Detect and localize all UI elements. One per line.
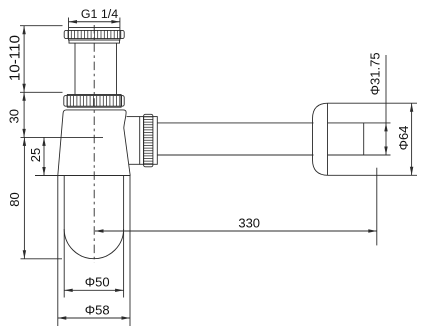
extension line at nut top (10-110) [20,25,63,27]
svg-text:80: 80 [7,192,22,206]
cup inner right wall / ext line [123,176,125,298]
pipe end joint line [363,123,365,155]
cup inner bottom arc [64,229,123,259]
arrowhead right G1 1/4 [111,20,120,23]
arrowhead up 80 [23,137,26,146]
arrowhead up 10-110 [22,26,25,35]
arrowhead left G1 1/4 [69,20,78,23]
arrowhead down 10-110 [22,84,25,93]
arrowhead left Phi50 [64,289,73,292]
outlet nut knurl ticks [144,117,153,164]
inlet pipe right wall [116,43,118,94]
extension line right of 330 dim [376,168,378,246]
svg-text:10-110: 10-110 [6,35,23,81]
outlet nut knurl band with tabs [144,114,153,167]
arrowhead down 25 [42,167,45,176]
arrowhead down 80 [23,250,26,259]
svg-text:Φ64: Φ64 [396,126,411,151]
cup rim joint line [35,175,130,177]
extension line at lower nut top [20,91,63,93]
svg-text:Φ50: Φ50 [85,274,110,289]
outlet pipe top wall [157,122,313,124]
svg-text:G1 1/4: G1 1/4 [81,7,118,21]
lower body nut body [67,95,121,108]
lower nut knurl band with side tabs [64,96,124,107]
extension line right of G1 1/4 dim [119,18,121,28]
outlet pipe bottom wall [157,154,313,156]
arrowhead up 25 [42,137,45,146]
svg-text:25: 25 [28,148,43,162]
arrowhead right Phi50 [115,289,124,292]
arrowhead down 30 [22,129,25,138]
top nut base flange [69,40,120,43]
arrowhead left 330 [95,229,104,232]
extension line at shoulder [21,136,104,138]
dimension line G1 1/4 [69,21,120,23]
dimension line Phi31.75 [385,55,387,155]
dimension line Phi64 [411,103,413,175]
extension line at cup bottom [21,258,63,260]
outlet stub bottom line [129,163,140,165]
arrowhead right Phi58 [122,316,131,319]
arrowhead up 30 [22,92,25,101]
arrowhead up Phi64 [410,103,413,112]
arrowhead down Phi31.75 [384,147,387,156]
svg-text:330: 330 [238,216,260,231]
escutcheon face line [327,103,329,175]
arrowhead left Phi58 [58,316,67,319]
dimension line Phi50 [64,289,123,291]
vertical centerline [93,25,95,263]
dimension line Phi58 [58,317,130,319]
pipe inside escutcheon bottom / ext line [328,154,391,156]
dimension line 25 [43,137,45,175]
dimension line 80 [23,137,25,258]
outlet nut body [144,117,158,165]
svg-text:Φ58: Φ58 [85,302,110,317]
wall escutcheon outline [313,103,418,175]
extension line left of G1 1/4 dim [68,18,70,28]
top nut knurl band with side tabs [64,30,124,38]
cup inner left wall / ext line [63,176,65,298]
arrowhead down Phi64 [410,167,413,176]
outlet nut flange [140,117,144,165]
arrowhead up Phi31.75 [384,123,387,131]
outlet stub top line [127,116,140,118]
pipe inside escutcheon top / ext line [328,122,391,124]
trap body tapered shoulder [58,110,130,176]
svg-text:Φ31.75: Φ31.75 [367,52,382,95]
svg-text:30: 30 [7,109,22,123]
arrowhead right 330 [368,229,377,232]
dimension line 330 [95,230,377,232]
inlet pipe left wall [74,43,76,94]
dimension line 10-110 [23,26,25,93]
top nut knurl ticks [68,30,121,38]
lower nut knurl ticks [67,96,122,107]
cup outer left wall / ext line [57,176,59,327]
top inlet nut body [69,28,120,41]
dimension line 30 [23,92,25,137]
cup outer right wall / ext line [129,176,131,327]
